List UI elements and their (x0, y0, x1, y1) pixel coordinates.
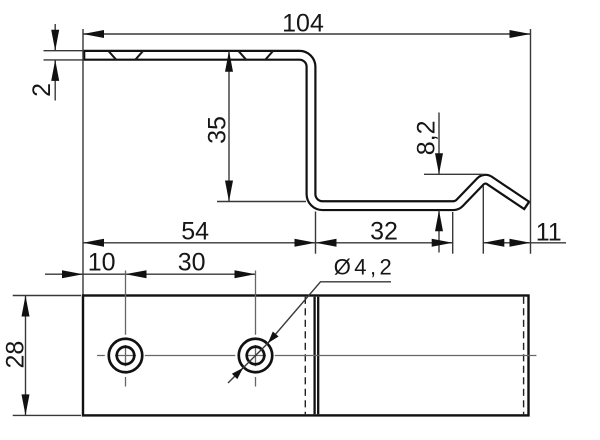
extension line peak x=483.3 (482, 186, 484, 254)
dimension 54/32: line (83, 242, 453, 244)
leader arrow upper (268, 332, 279, 344)
dimension 54: left arrow (83, 239, 104, 247)
svg-text:8,2: 8,2 (412, 121, 440, 156)
dimension 28: top extension line (13, 295, 81, 297)
dimension 32: right arrow (432, 239, 453, 247)
dimension 2: lower extension line (44, 59, 84, 61)
svg-text:11: 11 (536, 219, 562, 247)
dimension 30: left arrow (126, 270, 147, 278)
dimension 104: left arrow (83, 30, 104, 38)
dimension 35: top arrow (225, 51, 233, 72)
extension line web x=315.5 (315, 212, 317, 254)
hole 2 vertical centerline (255, 271, 257, 387)
dimension 28: top arrow (22, 296, 30, 317)
countersunk hole 2 section mark (238, 51, 273, 60)
dimension 32: left arrow (316, 239, 337, 247)
extension line left end x=83 (82, 29, 84, 295)
dimension 35: bottom arrow (225, 181, 233, 202)
hole 1 countersink circle (109, 339, 143, 373)
dimension 2: upper extension line (44, 50, 84, 52)
plan view bend edge solid line b (317, 297, 319, 415)
dimension 54: right arrow (295, 239, 316, 247)
dimension 10: outside arrow (62, 270, 83, 278)
dimension row 10/30: line (45, 273, 256, 275)
strip hollow (white core) (85, 55, 525, 205)
dimension 35: line (228, 51, 230, 202)
hole 2 bore circle (247, 347, 265, 365)
dimension 104: line (83, 33, 531, 35)
dimension 2: upper arrow (54, 24, 56, 51)
plan view hidden edge (dashed) x=523.6 (523, 297, 525, 415)
dimension 28: bottom arrow (22, 394, 30, 415)
dimension 28: line (25, 296, 27, 416)
hole 1 bore circle (117, 347, 135, 365)
svg-text:30: 30 (178, 249, 206, 277)
dimension 2: lower arrow (54, 60, 56, 101)
hole 2 countersink circle (239, 339, 273, 373)
dimension 104: right arrow (510, 30, 531, 38)
bent strip profile (side view) outer+inner contour (83, 55, 528, 206)
dimension 11: right arrow (510, 239, 531, 247)
dimension 8,2: lower arrow and tail (438, 210, 440, 252)
dimension 11: line (483, 242, 566, 244)
svg-text:32: 32 (370, 217, 398, 245)
dimension 8,2: upper line and arrow (438, 113, 440, 175)
plan view plate outline (83, 296, 529, 416)
dimension 28: bottom extension line (13, 414, 81, 416)
svg-text:2: 2 (28, 83, 56, 97)
leader arrow lower (232, 368, 243, 379)
horizontal centerline through holes (97, 355, 536, 357)
plan view bend edge solid line a (313, 297, 315, 415)
extension line kick start x=452.7 (452, 212, 454, 254)
svg-text:54: 54 (181, 217, 209, 245)
dimension 11: left arrow (483, 239, 504, 247)
hole 1 vertical centerline (125, 271, 127, 387)
countersunk hole 1 section mark (108, 51, 143, 60)
svg-text:10: 10 (88, 249, 116, 277)
dimension 30: right arrow (235, 270, 256, 278)
dimension 8,2: extension line at peak (424, 173, 484, 175)
svg-text:104: 104 (282, 10, 324, 38)
leader line for hole diameter (228, 282, 391, 383)
dimension 35: extension line (217, 201, 306, 203)
svg-text:35: 35 (204, 116, 232, 144)
svg-text:28: 28 (1, 341, 29, 369)
svg-text:Ø4,2: Ø4,2 (334, 255, 395, 280)
extension line right end x=530.5 (530, 29, 532, 254)
plan view hidden bend line (dashed) x=305 (304, 297, 306, 415)
